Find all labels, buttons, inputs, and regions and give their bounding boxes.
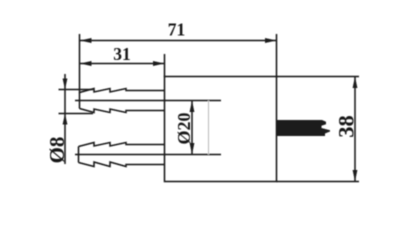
extension line bottom right (for 38) [277, 181, 360, 183]
arrow Ø8 lower (points up) [63, 114, 68, 125]
arrow 38 top [353, 77, 358, 89]
extension line body left edge (for 31) [164, 54, 166, 77]
bottom port centerline (Ø20 extension) [75, 154, 221, 156]
Ø8 extension line upper [59, 89, 94, 91]
bottom barb port [79, 143, 165, 167]
body outline [165, 77, 277, 182]
arrow Ø8 upper (points down) [63, 79, 68, 90]
svg-text:Ø8: Ø8 [45, 137, 69, 164]
Ø8 extension line lower [59, 113, 94, 115]
svg-text:31: 31 [113, 44, 131, 64]
dimension line 31 [80, 63, 165, 65]
arrow 31 right [153, 61, 165, 66]
arrow Ø20 top [190, 101, 195, 113]
dimension line Ø8 [64, 74, 66, 164]
dimension line Ø20 [191, 101, 193, 155]
arrow Ø20 bottom [190, 143, 195, 155]
extension line left (barb tip, for 71 and 31) [79, 34, 81, 93]
top barb port [80, 89, 165, 113]
arrow 71 right [265, 38, 277, 43]
arrow 38 bottom [353, 170, 358, 182]
dimension line 38 [354, 77, 356, 182]
cable (black) [277, 120, 330, 136]
top port centerline (Ø20 extension) [75, 100, 221, 102]
arrow 71 left [80, 38, 92, 43]
arrow 31 left [80, 61, 92, 66]
extension line body right edge (for 71) [276, 34, 278, 77]
svg-text:71: 71 [168, 20, 186, 40]
pitch circle projection line [208, 101, 210, 155]
svg-text:Ø20: Ø20 [174, 112, 194, 144]
extension line top right (for 38) [277, 76, 360, 78]
svg-text:38: 38 [334, 115, 359, 138]
dimension line 71 [80, 40, 277, 42]
